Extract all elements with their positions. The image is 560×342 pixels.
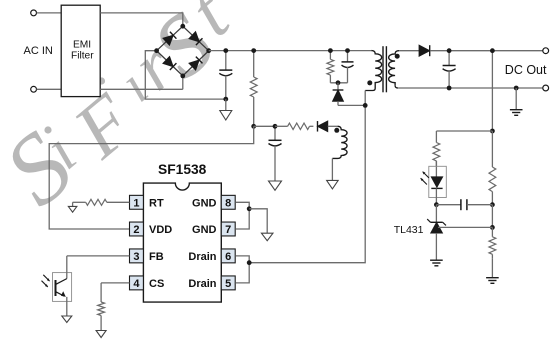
svg-text:CS: CS <box>149 278 164 290</box>
svg-text:EMI: EMI <box>73 39 91 50</box>
svg-text:2: 2 <box>133 224 139 236</box>
svg-text:6: 6 <box>225 251 231 263</box>
svg-text:Filter: Filter <box>71 51 94 62</box>
svg-text:SF1538: SF1538 <box>158 162 207 177</box>
svg-text:3: 3 <box>133 251 139 263</box>
svg-text:7: 7 <box>225 224 231 236</box>
svg-text:1: 1 <box>133 197 139 209</box>
svg-text:Drain: Drain <box>188 278 216 290</box>
svg-text:5: 5 <box>225 278 231 290</box>
svg-text:4: 4 <box>133 278 140 290</box>
svg-text:GND: GND <box>192 197 217 209</box>
svg-text:TL431: TL431 <box>394 224 424 236</box>
svg-text:DC Out: DC Out <box>505 63 547 77</box>
svg-text:RT: RT <box>149 197 164 209</box>
svg-text:AC IN: AC IN <box>24 45 53 57</box>
svg-text:GND: GND <box>192 224 217 236</box>
svg-text:Drain: Drain <box>188 251 216 263</box>
svg-text:8: 8 <box>225 197 231 209</box>
svg-text:VDD: VDD <box>149 224 172 236</box>
svg-text:FB: FB <box>149 251 164 263</box>
